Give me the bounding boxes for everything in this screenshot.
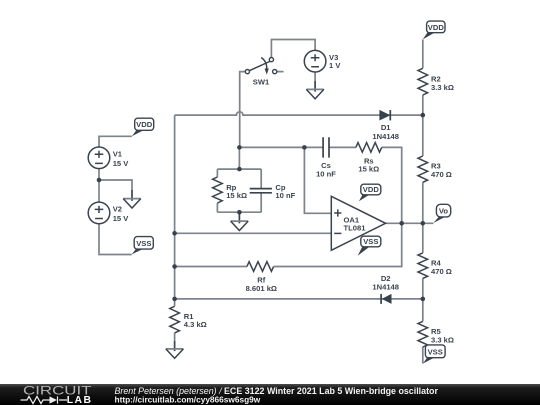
junction node B SW1/tank [237, 145, 242, 150]
diode D2 1N4148 [381, 294, 391, 304]
resistor R3 470 [418, 156, 428, 182]
resistor Rp 15k [213, 177, 223, 203]
svg-text:15 V: 15 V [113, 159, 130, 168]
resistor R1 4.3k [170, 306, 180, 333]
resistor R4 470 [418, 253, 428, 279]
op-amp plus input sign [334, 209, 341, 216]
svg-text:1N4148: 1N4148 [372, 132, 399, 141]
svg-text:1N4148: 1N4148 [372, 283, 399, 292]
svg-text:10 nF: 10 nF [316, 169, 336, 178]
resistor Rf 8.601k [247, 262, 274, 272]
flag VDD at V1 [132, 118, 154, 136]
wire op-amp output to Vo [386, 222, 434, 224]
wire SW1 top throw to V3 [271, 40, 315, 58]
diode D1 1N4148 [379, 110, 390, 121]
wire V2 bottom to VSS flag [99, 224, 132, 255]
ground below V3 [306, 81, 324, 99]
wire SW1 left lead down to node B [240, 72, 246, 148]
junction D1/R2/R3 [421, 113, 426, 118]
svg-text:VSS: VSS [363, 237, 378, 246]
svg-text:470 Ω: 470 Ω [431, 267, 452, 276]
ground below V1 V2 node [123, 190, 141, 208]
junction D2/R4/R5 [421, 297, 426, 302]
wire R1 leads [174, 299, 176, 341]
svg-text:TL081: TL081 [344, 224, 367, 233]
flag Vo output [433, 204, 450, 223]
logo doodle [21, 396, 68, 403]
svg-text:15 V: 15 V [113, 214, 130, 223]
junction tank top [237, 167, 242, 172]
voltage source V1 [88, 147, 110, 169]
resistor Rs 15k [356, 143, 382, 153]
wire Rf left lead [175, 266, 247, 268]
wire Rf right lead up to output [274, 147, 402, 266]
svg-text:VSS: VSS [136, 239, 151, 248]
svg-text:LAB: LAB [67, 395, 93, 405]
svg-text:V1: V1 [113, 150, 123, 159]
svg-text:VDD: VDD [363, 185, 380, 194]
svg-text:SW1: SW1 [253, 77, 270, 86]
wire top net with hop over SW1 wire [175, 112, 423, 115]
ground below Rp Cp tank [231, 212, 249, 230]
svg-text:3.3 kΩ: 3.3 kΩ [431, 83, 454, 92]
voltage source V2 [88, 202, 110, 224]
junction inverting/D2/R1 [172, 297, 177, 302]
voltage source V3 [304, 50, 326, 72]
svg-text:V2: V2 [113, 205, 122, 214]
svg-text:15 kΩ: 15 kΩ [358, 165, 379, 174]
wire node B to Cs [240, 146, 356, 148]
svg-text:15 kΩ: 15 kΩ [226, 191, 247, 200]
wire Rp Cp tank box [217, 147, 261, 212]
svg-text:VDD: VDD [136, 120, 153, 129]
switch SW1 [245, 58, 277, 75]
flag VSS at op-amp [358, 236, 381, 256]
resistor R5 3.3k [418, 321, 428, 347]
svg-text:D1: D1 [381, 123, 391, 132]
junction node V1-V2 [97, 178, 102, 183]
flag VSS at R5 bottom [423, 345, 445, 364]
junction output/Rf [399, 221, 404, 226]
wire SW1 lower throw stub [277, 71, 284, 73]
footer bar [0, 384, 540, 405]
junction tank bottom [237, 210, 242, 215]
flag VSS at V2 [132, 237, 154, 255]
svg-text:VSS: VSS [428, 347, 443, 356]
svg-text:8.601 kΩ: 8.601 kΩ [246, 284, 277, 293]
wire noninverting input [304, 147, 331, 213]
resistor R2 3.3k [418, 68, 428, 95]
wire left vertical inverting net [174, 115, 176, 299]
junction output/R3/R4 [421, 221, 426, 226]
svg-text:4.3 kΩ: 4.3 kΩ [184, 320, 207, 329]
wire V3 bottom [314, 72, 316, 81]
svg-text:http://circuitlab.com/cyy866sw: http://circuitlab.com/cyy866sw6sg9w [115, 394, 261, 404]
svg-text:1 V: 1 V [329, 61, 341, 70]
op-amp minus input sign [334, 232, 341, 234]
svg-text:470 Ω: 470 Ω [431, 170, 452, 179]
svg-text:3.3 kΩ: 3.3 kΩ [431, 335, 454, 344]
flag VDD at op-amp [359, 184, 381, 201]
capacitor Cs plates [323, 137, 329, 157]
svg-text:VDD: VDD [428, 23, 445, 32]
wire V1 top to VDD flag [99, 136, 132, 147]
ground below R1 [166, 341, 184, 358]
wire D2 net [175, 298, 423, 300]
wire inverting input [175, 232, 332, 234]
wire V1 bottom to V2 top [98, 169, 100, 203]
capacitor Cp plates [250, 189, 272, 193]
wire right column [422, 40, 424, 364]
wire node A to ground branch [99, 180, 132, 190]
junction inverting/top net [172, 231, 177, 236]
junction inverting/Rf [172, 264, 177, 269]
junction node Cs tap [302, 145, 307, 150]
svg-text:Vo: Vo [439, 207, 449, 216]
svg-text:10 nF: 10 nF [275, 191, 295, 200]
flag VDD at R2 top [423, 21, 445, 39]
op-amp U1 TL081 triangle [331, 196, 385, 250]
